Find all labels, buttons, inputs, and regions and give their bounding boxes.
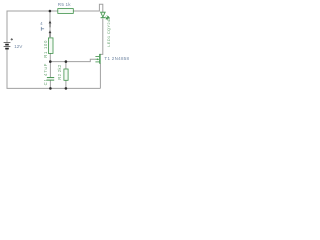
resistor R2 <box>64 69 68 80</box>
wire R2 bottom lead <box>65 80 67 88</box>
svg-text:R5 1k: R5 1k <box>58 2 72 7</box>
wire R2 top lead <box>65 62 67 69</box>
LED LED1 <box>101 12 110 19</box>
wire middle drop to R1 <box>49 11 51 38</box>
battery plus sign <box>11 38 13 40</box>
wire top rail to R5 <box>50 10 58 12</box>
svg-text:C1 47uF: C1 47uF <box>43 63 48 86</box>
capacitor C1 <box>47 78 54 81</box>
transistor T1 JFET <box>95 54 100 64</box>
wire C1 bottom to ground rail <box>49 80 51 88</box>
svg-text:12V: 12V <box>14 44 23 49</box>
junction node R2 top <box>65 60 68 63</box>
junction node R2 ground <box>65 87 68 90</box>
wire bottom rail <box>7 49 100 89</box>
wire R5 to LED jog <box>73 4 103 12</box>
wire gate net horizontal <box>50 59 95 61</box>
current arrow 2 <box>49 30 52 37</box>
annotation tick <box>41 27 44 31</box>
wire top rail left segment <box>7 11 50 42</box>
svg-text:T1 2N4858: T1 2N4858 <box>104 56 129 61</box>
wire node to C1 top <box>49 62 51 78</box>
current arrow 1 <box>49 21 52 28</box>
resistor R5 <box>58 9 74 14</box>
svg-text:R1 100: R1 100 <box>43 40 48 58</box>
wire R1 bottom to gate node <box>49 53 51 61</box>
junction node top <box>49 10 52 13</box>
svg-text:LED1 CQY24A: LED1 CQY24A <box>106 17 111 47</box>
junction node gate-left <box>49 60 52 63</box>
junction node C1 ground <box>49 87 52 90</box>
wire source down to bottom rail <box>99 63 101 88</box>
resistor R1 <box>48 38 53 54</box>
battery BAT1 12V <box>4 43 11 49</box>
wire LED cathode down to drain <box>100 19 103 55</box>
svg-text:R2 2k2: R2 2k2 <box>57 64 62 80</box>
